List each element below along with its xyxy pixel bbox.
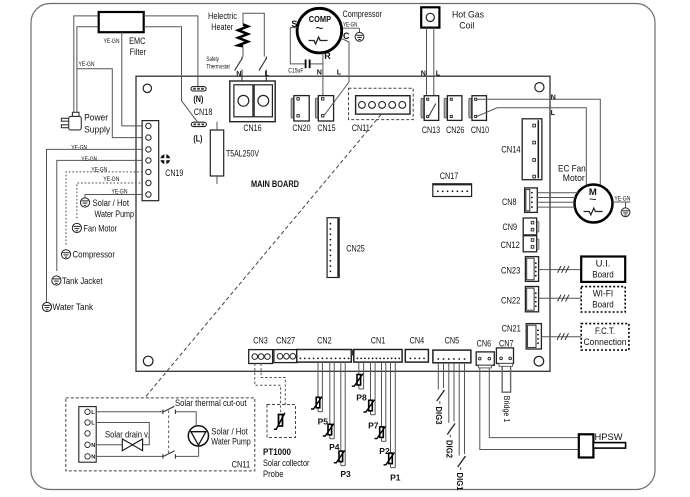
svg-text:PT1000: PT1000 [263,447,291,457]
wire: CN23 to U.I. board with cable marks [539,269,582,271]
svg-text:CN11: CN11 [232,460,251,471]
thermal protector symbol inside motor [584,208,603,215]
U.I. Board box [581,257,625,282]
svg-text:CN26: CN26 [446,125,464,136]
terminal pin labels [91,410,95,461]
svg-text:Water Tank: Water Tank [53,302,94,313]
svg-text:Compressor: Compressor [73,250,116,261]
wire: drain valve loop [96,423,149,445]
connector CN27 [274,350,298,363]
temperature probe P3 [334,362,351,479]
wire (dashed): fan motor earth to CN19 pin6 [77,183,142,219]
svg-text:L: L [91,421,95,427]
ground Solar / Hot Water Pump [80,198,89,207]
wire: solar pump earth to CN19 pin7 [85,195,142,198]
svg-text:YE-GN: YE-GN [104,38,120,45]
svg-text:CN21: CN21 [502,324,521,335]
connector CN13 [421,96,439,121]
connector CN23 [525,257,538,282]
wire: heater to safety thermostat [242,46,244,56]
connector CN8 [525,188,538,213]
PT1000 probe symbol [274,413,285,430]
connector CN7 [496,348,513,366]
connector CN14 [522,119,542,180]
svg-text:CN25: CN25 [346,243,365,254]
svg-text:CN15: CN15 [317,123,335,134]
temperature probe P8 [352,362,367,403]
wire: hot gas coil L to CN13 [433,28,435,96]
digital input DIG3 [434,363,444,425]
svg-text:CN8: CN8 [502,197,517,208]
connector CN16 [230,81,275,122]
solar terminal block [79,407,96,463]
heater loop top wire [243,13,264,56]
ground Water Tank [42,302,51,311]
wire: terminal N to cut-out to pump bottom [96,455,163,457]
svg-text:P4: P4 [329,442,340,452]
wire: hot gas coil N to CN13 [426,28,428,98]
mounting hole top-left [143,84,151,92]
svg-text:CN23: CN23 [501,266,520,277]
digital input DIG1 [455,363,466,491]
svg-text:P1: P1 [390,472,401,482]
svg-text:U.I.: U.I. [596,259,611,270]
wire: motor earth stem [625,202,627,208]
screw symbol next to CN19 [160,154,170,164]
svg-text:Filter: Filter [130,47,146,58]
svg-text:DIG2: DIG2 [445,440,455,458]
svg-text:Motor: Motor [563,173,585,184]
mounting hole bottom-right [534,356,544,366]
connector CN26 [444,96,462,121]
svg-text:Hot Gas: Hot Gas [452,9,484,20]
svg-text:DIG1: DIG1 [455,473,465,491]
svg-text:CN10: CN10 [471,125,489,136]
power supply plug [61,112,81,130]
connector CN19 [142,121,159,201]
EC fan motor M circle [575,185,613,223]
svg-text:L: L [265,69,270,78]
connector CN11 (dashed outline) [349,88,414,119]
svg-text:CN13: CN13 [422,125,440,136]
svg-text:CN14: CN14 [501,145,520,156]
connector CN2 strip [297,350,352,363]
cut-out switch top [163,406,176,414]
connector CN18 (L) terminal [191,122,206,126]
safety thermostat switch L [259,57,267,82]
fuse T5AL250V [216,122,218,130]
temperature probe P7 [364,362,379,430]
connector CN6 [476,352,494,368]
PT1000 dashed box [267,405,296,438]
wire: terminal L1 to cut-out to pump [96,411,163,413]
svg-text:CN18: CN18 [194,107,213,118]
wire: CN21 to F.C.T. with cable marks [541,336,581,338]
svg-text:~: ~ [589,192,597,207]
wire: capacitor to R wire [310,63,323,65]
connector CN18 (N) terminal [191,87,206,91]
svg-text:L: L [436,68,441,77]
svg-text:Bridge 1: Bridge 1 [502,396,512,423]
capacitor C15uF [305,60,307,69]
wire: plug cable to EMC filter (two conductors) [74,16,99,112]
compressor COMP circle [297,8,342,53]
connector CN12 [523,236,539,252]
thermal protector symbol inside COMP [309,37,328,44]
svg-text:CN9: CN9 [503,222,518,233]
connector CN1 strip [354,350,402,363]
connector CN22 [525,287,538,312]
svg-text:Tank Jacket: Tank Jacket [62,276,103,287]
solar drain valve [122,439,142,451]
svg-text:WI-FI: WI-FI [593,289,614,300]
svg-text:P3: P3 [340,469,351,479]
svg-text:YE-GN: YE-GN [81,156,97,163]
mounting hole top-right [535,83,544,92]
hot gas coil [421,7,439,27]
wire: C terminal to CN15 lower pin [341,38,349,82]
wire: tank jacket earth to CN19 pin4 [57,160,142,271]
svg-text:CN7: CN7 [499,339,514,350]
svg-text:N: N [91,455,95,461]
svg-text:T5AL250V: T5AL250V [226,149,259,160]
svg-text:L: L [551,108,556,117]
WI-FI Board box (dotted) [581,287,625,312]
connector CN3 [249,350,273,364]
dashed leader line CN11 to solar detail box [145,115,381,398]
svg-text:C15uF: C15uF [288,68,303,75]
ground Fan Motor [72,223,81,232]
svg-text:CN5: CN5 [445,336,460,347]
svg-text:N: N [421,68,426,77]
svg-text:Water Pump: Water Pump [211,437,251,448]
wires: CN8 to motor [537,193,578,207]
svg-text:CN27: CN27 [276,336,295,347]
svg-text:YE-GN: YE-GN [79,61,95,68]
junction block between CN2 and CN1 [351,350,355,356]
wire: S terminal to capacitor [290,28,305,64]
svg-text:P7: P7 [368,421,379,431]
svg-text:Probe: Probe [263,469,284,480]
digital input DIG2 [445,363,455,458]
svg-text:CN6: CN6 [477,339,492,350]
svg-text:R: R [324,51,331,61]
svg-text:Solar / Hot: Solar / Hot [93,198,130,209]
svg-text:DIG3: DIG3 [434,407,444,425]
svg-text:Compressor: Compressor [343,9,382,20]
svg-text:Board: Board [592,300,614,311]
connector CN9 [523,218,539,235]
wire: EMC earth to CN19 pin1 [122,32,142,126]
connector CN25 [327,218,339,278]
svg-text:Heater: Heater [211,22,233,33]
F.C.T. Connection box (dotted) [581,324,629,350]
svg-text:F.C.T.: F.C.T. [595,326,615,337]
svg-text:Power: Power [84,113,108,124]
EMC filter [99,12,144,32]
svg-text:N: N [317,68,322,77]
ground (compressor YE-GN) [355,32,364,41]
svg-text:CN12: CN12 [501,240,520,251]
svg-text:Board: Board [592,270,614,281]
wires: CN6 to HPSW [489,368,579,438]
svg-text:Helectric: Helectric [208,11,237,22]
connector CN20 [291,96,309,121]
svg-text:(L): (L) [193,133,202,144]
svg-text:CN2: CN2 [317,336,332,347]
svg-text:CN19: CN19 [165,168,183,179]
svg-text:~: ~ [315,20,323,36]
svg-text:CN16: CN16 [243,123,261,134]
svg-text:(N): (N) [193,94,203,105]
connector CN21 [526,324,541,349]
svg-text:Coil: Coil [459,20,474,31]
svg-text:Supply: Supply [84,125,110,136]
svg-text:P8: P8 [356,393,367,403]
solar pump symbol [188,426,208,446]
heater element zigzag [238,25,248,47]
svg-text:N: N [91,443,95,449]
svg-text:N: N [236,69,241,78]
wire (dashed): compressor earth to CN19 pin5 [66,172,142,245]
svg-text:YE-GN: YE-GN [343,22,358,29]
safety thermostat switch N [235,57,243,82]
svg-text:Solar thermal cut-out: Solar thermal cut-out [175,398,247,409]
wire L: CN10 to EC fan motor [477,108,587,186]
svg-text:CN1: CN1 [371,336,386,347]
svg-text:YE-GN: YE-GN [614,196,630,203]
connector CN4 [405,350,428,363]
cut-out switch bottom [163,451,176,459]
svg-text:Thermostat: Thermostat [206,63,230,70]
svg-text:CN11: CN11 [352,123,370,134]
svg-text:Fan Motor: Fan Motor [84,224,118,235]
temperature probe P2 [375,362,390,456]
cut-out dashed link [168,411,170,456]
svg-text:P5: P5 [318,416,329,426]
wire: plug earth branch to CN19 pin2 [77,69,142,138]
ground (fan motor YE-GN) [621,208,630,217]
svg-text:CN4: CN4 [410,336,425,347]
ground Compressor [61,250,70,259]
wire: CN22 to WI-FI board with cable marks [539,297,582,299]
wire: EMC L output to CN18 (L) [144,27,198,122]
temperature probe P5 [311,362,328,426]
mounting hole bottom-left [143,356,153,366]
wire: water tank earth to CN19 pin3 [47,149,143,302]
connector CN5 [433,350,471,363]
connector CN17 [433,184,472,197]
dashed wires: CN3 to PT1000 [255,364,281,415]
connector CN10 [469,96,487,121]
HPSW high pressure switch [579,434,594,457]
svg-text:HPSW: HPSW [595,432,623,443]
svg-text:CN17: CN17 [440,171,459,182]
main board PCB outline [136,76,550,371]
connector CN15 [315,96,333,121]
svg-text:CN3: CN3 [253,336,268,347]
ground Tank Jacket [52,276,61,285]
wire: EMC N output to CN18 (N) [144,16,198,87]
svg-text:N: N [551,93,556,102]
svg-text:Connection: Connection [584,337,627,348]
temperature probe P1 [384,362,401,482]
wire: C terminal diagonal into CN15 [324,82,349,116]
wire: compressor earth stem [359,28,361,32]
bridge 1 jumper wires from CN7 [502,366,510,392]
svg-text:L: L [337,68,342,77]
svg-text:EMC: EMC [129,36,145,47]
svg-text:Solar collector: Solar collector [263,458,310,469]
svg-text:Safety: Safety [206,56,219,63]
svg-text:L: L [91,410,95,416]
wire N: CN10 to EC fan motor [477,99,601,186]
svg-text:YE-GN: YE-GN [103,176,119,183]
solar detail dashed box [66,398,255,471]
wire: R terminal down to CN15 pin N [322,53,324,98]
svg-text:CN22: CN22 [501,296,520,307]
svg-text:CN20: CN20 [292,123,310,134]
svg-text:MAIN BOARD: MAIN BOARD [251,179,299,190]
svg-text:YE-GN: YE-GN [71,145,87,152]
svg-text:Water Pump: Water Pump [95,209,135,220]
temperature probe P4 [323,362,340,452]
